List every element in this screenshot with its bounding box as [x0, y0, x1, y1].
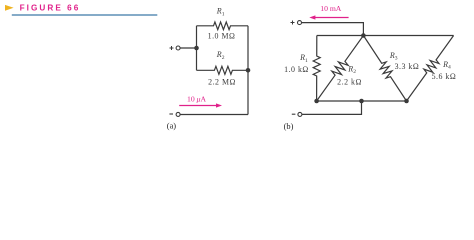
svg-text:2.2 MΩ: 2.2 MΩ — [208, 78, 236, 87]
svg-text:10 mA: 10 mA — [320, 4, 342, 13]
svg-text:(b): (b) — [284, 122, 294, 131]
svg-text:R2: R2 — [347, 64, 356, 75]
svg-text:R1: R1 — [299, 53, 308, 64]
svg-text:R3: R3 — [389, 51, 398, 62]
svg-text:3.3 kΩ: 3.3 kΩ — [395, 62, 420, 71]
svg-text:1.0 MΩ: 1.0 MΩ — [208, 32, 236, 41]
svg-text:FIGURE 66: FIGURE 66 — [20, 4, 81, 13]
svg-text:R2: R2 — [216, 50, 225, 61]
svg-text:1.0 kΩ: 1.0 kΩ — [284, 65, 309, 74]
svg-text:2.2 kΩ: 2.2 kΩ — [337, 78, 362, 87]
svg-text:(a): (a) — [167, 121, 177, 130]
svg-text:10 μA: 10 μA — [187, 95, 206, 104]
svg-text:5.6 kΩ: 5.6 kΩ — [432, 72, 457, 81]
svg-text:R1: R1 — [216, 7, 225, 18]
svg-text:R4: R4 — [442, 60, 451, 71]
